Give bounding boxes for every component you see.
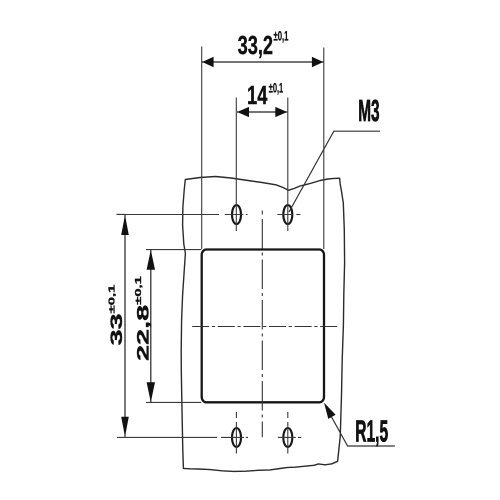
dimension text 33 (rotated) (106, 284, 126, 345)
arrow 33,2 right (312, 57, 323, 67)
dimension line 22,8 (150, 250, 152, 402)
arrow 33 top (121, 215, 129, 235)
extension line 22,8 bottom (146, 401, 201, 403)
dimension text 33,2 (238, 31, 273, 60)
svg-text:33,2: 33,2 (238, 31, 273, 60)
centerline horizontal through cutout (192, 326, 338, 328)
cutout rounded rectangle (202, 250, 324, 403)
bottom hole row centerline solid part (117, 436, 217, 438)
dimension text 14 (247, 81, 268, 110)
centerline vertical through cutout (261, 211, 263, 215)
svg-text:R1,5: R1,5 (355, 415, 388, 449)
hole top-right (283, 205, 292, 224)
extension line 22,8 top (146, 249, 201, 251)
arrow R1,5 (324, 403, 336, 419)
arrow 22,8 top (147, 250, 155, 270)
svg-text:±0,1: ±0,1 (274, 29, 289, 44)
arrow 22,8 bottom (147, 382, 155, 402)
dimension text 22,8 (rotated) (133, 276, 153, 361)
extension line 33 top (117, 213, 126, 215)
hole bottom-right (283, 428, 292, 447)
vertical centerline bottom-left hole (235, 412, 237, 454)
leader M3 (289, 131, 380, 212)
leader R1,5 (326, 407, 395, 446)
extension line 33,2 right (323, 48, 325, 250)
dimension line 33,2 (202, 61, 324, 63)
label M3 (358, 94, 379, 128)
arrow 14 left (237, 107, 249, 117)
bottom hole row centerline dashed part (221, 436, 301, 438)
top hole row centerline solid part (117, 214, 220, 216)
arrow 33,2 left (202, 57, 213, 67)
extension line 14 left (235, 98, 237, 232)
label R1,5 (355, 415, 388, 449)
hole bottom-left (232, 428, 241, 447)
svg-text:14: 14 (247, 81, 268, 110)
top hole row centerline dashed part (225, 214, 300, 216)
vertical centerline bottom-right hole (287, 412, 289, 454)
dimension line 14 (237, 111, 287, 113)
arrow 33 bottom (121, 417, 129, 437)
svg-text:±0,1: ±0,1 (269, 81, 283, 96)
arrow 14 right (275, 107, 287, 117)
hole top-left (232, 205, 241, 224)
svg-text:M3: M3 (358, 94, 379, 128)
dimension line 33 (124, 215, 126, 437)
extension line 14 right (287, 98, 289, 232)
extension line 33,2 left (201, 47, 203, 250)
panel broken-out outline (181, 177, 344, 472)
